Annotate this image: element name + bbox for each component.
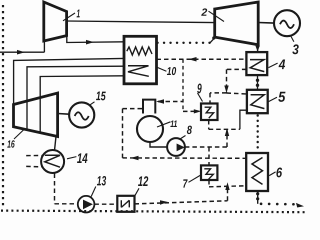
svg-text:13: 13 <box>97 173 107 188</box>
arrow into box 9 <box>194 109 202 113</box>
arrow on T1 exhaust wire <box>86 40 94 45</box>
wire: heater 6 drain down <box>257 191 259 204</box>
wire: condensate from 14 down <box>54 174 56 204</box>
leader for label 1 <box>63 13 75 21</box>
coil glyph in 5 <box>251 95 265 109</box>
leader for label 13 <box>91 187 96 197</box>
wire: steam to deaerator neck (arrow left) <box>158 101 183 103</box>
svg-text:4: 4 <box>278 56 286 72</box>
turbine T16 stage divider 1 <box>26 101 28 130</box>
wire: extraction line C <box>40 76 124 98</box>
wire: extraction line B <box>27 66 124 101</box>
svg-text:8: 8 <box>187 123 192 137</box>
pump 13 <box>78 196 95 213</box>
wire: dotted drain line right <box>261 203 298 206</box>
leader for label 7 <box>189 175 201 182</box>
glyph in 7 <box>204 169 213 179</box>
svg-text:5: 5 <box>278 90 286 106</box>
wire: drain line right into heater 6 <box>209 186 246 187</box>
sine wave in G15 <box>75 112 89 120</box>
leader for label 8 <box>180 136 186 140</box>
leader for label 9 <box>198 93 203 102</box>
leader for label 14 <box>67 157 76 159</box>
leader for label 11 <box>157 122 171 127</box>
svg-text:1: 1 <box>76 8 80 20</box>
arrow on inlet wire <box>17 50 25 55</box>
wire: split right to heater 5 <box>227 93 247 94</box>
wire: make-up water 12 to riser <box>135 201 228 204</box>
leader for label 15 <box>89 102 95 106</box>
water treatment box 12 <box>117 196 134 212</box>
svg-text:7: 7 <box>183 177 189 191</box>
wire: long heating line to heater 6 <box>123 157 247 159</box>
heater 7 <box>201 165 217 180</box>
leader for label 5 <box>269 97 278 101</box>
deaerator 11 tank <box>137 116 163 142</box>
wire: heating water stub lower into 14 <box>26 165 41 167</box>
wire: make-up riser up <box>227 187 229 201</box>
wire: left border dots <box>2 5 4 208</box>
sine wave in G3 <box>280 21 294 29</box>
svg-text:16: 16 <box>7 139 15 151</box>
generator G3 <box>274 10 300 36</box>
arrow on make-up wire <box>160 200 168 205</box>
leader for label 12 <box>135 188 139 196</box>
wire: pump 13 to treatment 12 <box>94 203 117 205</box>
pump 8 rotor triangle <box>177 144 185 152</box>
wire: inlet from left border to T1 <box>0 41 44 52</box>
vertical zigzag coil in 6 <box>252 158 263 185</box>
svg-text:12: 12 <box>138 173 149 189</box>
wire: branch from main dashed down <box>182 59 184 111</box>
coil glyph in 4 <box>250 60 264 72</box>
wire: to pump 13 <box>55 203 78 205</box>
turbine T16 stage divider 2 <box>39 98 41 133</box>
wire: heater 4 to heater 5 <box>257 75 259 90</box>
heat exchanger 14 (condenser) <box>41 150 64 173</box>
heater 5 <box>247 90 268 113</box>
wire: bottom border dots <box>1 211 305 213</box>
leader for label 3 <box>291 36 294 42</box>
heater 4 <box>246 52 267 75</box>
svg-text:11: 11 <box>170 119 177 130</box>
svg-text:6: 6 <box>276 164 282 180</box>
wire: branch into ejector 9 <box>183 110 196 112</box>
turbine T1 (HP turbine, label 1) <box>44 2 67 41</box>
svg-text:2: 2 <box>200 7 207 19</box>
turbine T2 (label 2) <box>215 2 259 45</box>
svg-text:15: 15 <box>96 89 107 103</box>
wire: main dashed steam line to boiler (from heater 4) <box>157 58 247 60</box>
pump 13 rotor triangle <box>83 200 93 210</box>
turbine T16 <box>14 93 58 137</box>
wire: T1 to T2 steam line <box>67 21 215 23</box>
heating coil (resistor zigzag) in 10 <box>127 47 152 55</box>
wire: dotted line corner to T2 <box>210 38 215 43</box>
ejector/heater box 9 <box>201 104 218 121</box>
wire: heating water stub upper into 14 <box>26 155 41 157</box>
wire: into 7 from collector above <box>208 147 210 165</box>
arrow into neck <box>156 99 164 104</box>
junction dots below 6 <box>256 192 259 195</box>
boiler/steam generator 10 <box>124 36 157 84</box>
deaerator 11 neck <box>143 100 155 114</box>
leader for label 16 <box>14 129 25 140</box>
glyph in 12 <box>121 200 129 207</box>
arrow left on main dashed <box>189 57 197 62</box>
wire: dotted line heater 5 to heater 6 <box>257 116 259 153</box>
wire: dotted steam line boiler to T2 <box>158 42 211 44</box>
wire: down leg <box>122 109 124 158</box>
arrow on heating line <box>131 156 139 161</box>
arrow up at riser junction <box>225 182 229 190</box>
leader for label 2 <box>209 11 225 21</box>
wire: extraction line A (top) turbine 16 to boiler <box>14 58 124 104</box>
arrow down on that wire <box>224 86 228 94</box>
junction dot at T2 corner <box>212 36 215 39</box>
junction dot above heater 4 <box>255 46 259 52</box>
wire: from heater 5 lower port down <box>240 110 247 129</box>
generator G15 <box>69 102 94 127</box>
pump 8 <box>167 138 185 156</box>
wire: T16 exhaust to heater 14 <box>55 136 57 150</box>
wire: pump 8 discharge <box>185 146 227 148</box>
generator G15 shaft <box>58 113 70 116</box>
heater 6 (network heater) <box>246 153 268 191</box>
leader for label 10 <box>157 67 166 71</box>
generator G3 shaft <box>258 22 274 25</box>
wire: deaerator to pump 8 <box>150 142 167 147</box>
coil glyph in 14 <box>45 155 60 167</box>
wire: steam T2 exhaust down to heater 4 <box>257 45 259 52</box>
wire: split left to box 9 top <box>210 93 227 104</box>
svg-text:14: 14 <box>77 150 88 166</box>
superheater glyph in 10 <box>128 66 149 77</box>
svg-text:3: 3 <box>292 41 299 57</box>
leader for label 4 <box>269 63 278 68</box>
leader for label 6 <box>269 172 275 176</box>
junction dots between 4 and 5 <box>256 79 259 82</box>
wire: T1 exhaust down and right to boiler 10 <box>67 36 124 43</box>
arrow at end of drain <box>296 203 304 208</box>
wire: riser from pump 8 line up <box>226 129 228 147</box>
wire: box 9 bottom to collector <box>208 120 210 129</box>
wire: collector line right <box>209 128 240 130</box>
wire: 7 drain down <box>208 180 210 187</box>
wire: heater 4 lower port left and down <box>227 69 247 93</box>
arrow up on riser <box>225 128 229 136</box>
svg-text:10: 10 <box>167 66 177 78</box>
wire: dashed from neck top left <box>123 108 144 110</box>
glyph in 9 <box>205 107 214 118</box>
